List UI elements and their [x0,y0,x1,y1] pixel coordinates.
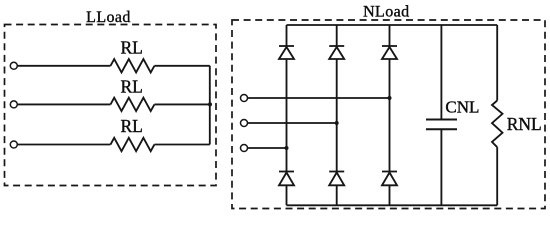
terminal phase b (left box) [10,101,17,108]
terminal phase b (right box) [241,120,248,127]
svg-text:RNL: RNL [507,114,542,134]
dashed enclosure box NLoad [232,20,545,209]
diode D5 (lower, leg 2) [329,172,344,186]
svg-text:RL: RL [121,37,143,57]
wire phase a to leg 3 [248,97,390,99]
resistor RNL [492,25,503,205]
junction node phase c / leg 1 [285,146,289,150]
wire terminal a to resistor R1 [18,65,111,67]
wire phase c to leg 1 [248,147,287,149]
wire resistor R1 to right bus [154,65,209,67]
resistor R3 value RL [111,138,155,151]
svg-text:RL: RL [121,77,143,97]
wire terminal b to resistor R2 [18,103,111,105]
wire terminal c to resistor R3 [18,144,111,146]
diode D4 (lower, leg 1) [279,172,294,186]
diode D1 (upper, leg 1) [279,46,294,59]
diode D3 (upper, leg 3) [382,46,397,59]
terminal phase c (right box) [241,145,248,152]
svg-text:LLoad: LLoad [86,9,131,26]
diode D6 (lower, leg 3) [382,172,397,186]
wire resistor R2 to right bus [154,103,209,105]
wire bridge leg 2 [336,25,338,205]
wire bridge leg 1 [286,25,288,205]
dashed enclosure box LLoad [5,25,217,186]
resistor R2 value RL [111,98,155,111]
wire resistor R3 to right bus [154,144,209,146]
wire top dc rail [287,24,498,26]
diode D2 (upper, leg 2) [329,46,344,59]
svg-text:RL: RL [121,116,143,136]
resistor R1 value RL [111,59,155,72]
wire bottom dc rail [287,204,498,206]
wire bridge leg 3 [389,25,391,205]
svg-text:NLoad: NLoad [363,4,409,21]
wire phase b to leg 2 [248,122,337,124]
svg-text:CNL: CNL [445,98,479,117]
junction node phase b / leg 2 [335,121,339,125]
terminal phase a (right box) [241,95,248,102]
terminal phase c (left box) [10,141,17,148]
junction node phase a / leg 3 [388,96,392,100]
capacitor CNL [426,25,457,205]
junction node on bus at row 2 [208,102,212,106]
wire right neutral bus (left box) [209,66,211,145]
terminal phase a (left box) [10,62,17,69]
